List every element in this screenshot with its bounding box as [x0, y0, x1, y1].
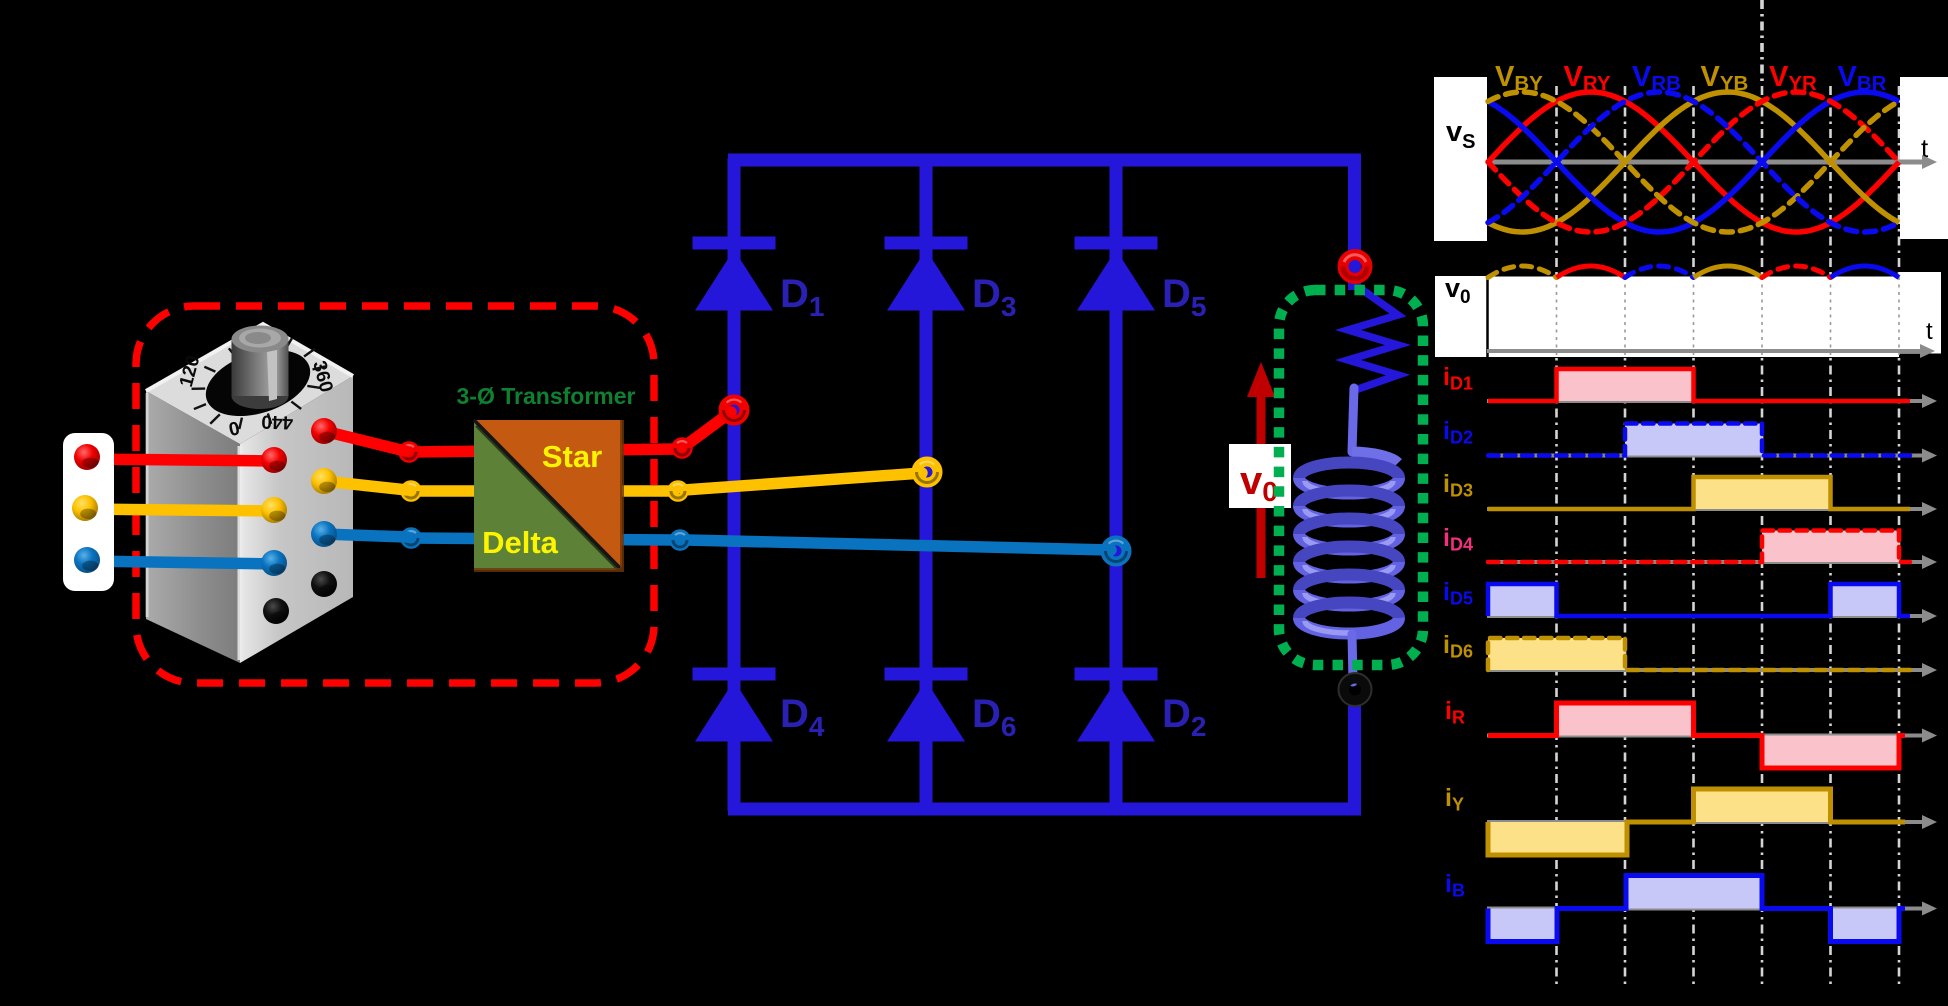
variac terminal R right — [311, 418, 337, 444]
wire input R — [86, 459, 276, 461]
waveform iR axis — [1487, 729, 1937, 743]
variac output wire R — [324, 431, 405, 451]
variac body — [146, 324, 353, 663]
wire bridge leg 2 — [920, 158, 933, 811]
label iD4 — [1443, 524, 1473, 555]
variac knob — [232, 326, 289, 410]
transformer U1 — [474, 420, 630, 578]
node connector R — [402, 445, 416, 459]
node switch pivot Y — [671, 484, 685, 498]
wire phase R feed — [409, 449, 678, 452]
variac output wire Y — [324, 481, 407, 490]
label iD5 — [1443, 578, 1473, 609]
waveform vYR dashed — [1488, 92, 1899, 232]
wire phase Y blade — [684, 473, 922, 490]
label iB — [1445, 870, 1465, 901]
wire phase B feed — [411, 538, 676, 540]
waveform vRY solid — [1488, 92, 1899, 232]
diode D3 — [885, 237, 968, 311]
label iR — [1445, 697, 1465, 728]
waveform iD4 axis — [1487, 555, 1937, 569]
label iY — [1445, 784, 1464, 815]
label D1 — [780, 272, 824, 322]
label D5 — [1162, 272, 1206, 322]
waveform iD6 trace — [1488, 638, 1910, 670]
wire phase R blade — [685, 412, 731, 446]
label vRY — [1564, 61, 1611, 95]
waveform iD3 trace — [1488, 477, 1910, 509]
diode D4 — [693, 668, 776, 742]
variac enclosure dashed box — [136, 306, 654, 683]
diode D6 — [885, 668, 968, 742]
label 3-phase transformer — [457, 383, 636, 409]
variac terminal R left — [261, 447, 287, 473]
waveform iD1 trace — [1488, 369, 1910, 401]
vS time axis — [1487, 155, 1937, 169]
variac terminal black 2 — [263, 598, 289, 624]
v0 time axis — [1487, 344, 1935, 358]
wire bridge leg 1 — [728, 158, 741, 811]
label iD2 — [1443, 417, 1473, 448]
terminal R supply — [74, 444, 100, 470]
waveform iD6 axis — [1487, 663, 1937, 677]
variac terminal B right — [311, 521, 337, 547]
diode D5 — [1075, 237, 1158, 311]
label vYB — [1701, 61, 1749, 95]
waveform iB trace — [1488, 876, 1905, 942]
waveform iD5 trace — [1488, 584, 1910, 616]
waveform vBY dashed — [1488, 92, 1899, 232]
wire input B — [86, 561, 276, 564]
v0 arrow — [1247, 362, 1275, 578]
diode D2 — [1075, 668, 1158, 742]
node negative terminal ring — [1339, 673, 1372, 706]
node switch pivot R — [675, 441, 689, 455]
v0 inner gridlines — [1557, 277, 1900, 356]
label vBR — [1838, 61, 1887, 95]
node positive terminal ring — [1343, 255, 1367, 279]
label vBY — [1495, 61, 1543, 95]
label vRB — [1632, 61, 1681, 95]
waveform iD5 axis — [1487, 609, 1937, 623]
wire input Y — [84, 509, 276, 511]
wire phase B blade — [686, 540, 1111, 550]
waveform vRB dashed — [1488, 92, 1899, 232]
node phase R on leg1 — [724, 400, 745, 421]
timing gridlines — [1557, 0, 1900, 984]
variac terminal Y left — [261, 497, 287, 523]
variac terminal Y right — [311, 468, 337, 494]
wire bridge leg 3 — [1110, 158, 1123, 811]
terminal B supply — [74, 547, 100, 573]
waveform iD2 trace — [1488, 424, 1910, 456]
label D3 — [972, 272, 1016, 322]
diode D1 — [693, 237, 776, 311]
svg-text:440: 440 — [261, 410, 293, 432]
variac output wire B — [324, 534, 407, 537]
waveform iD1 axis — [1487, 394, 1937, 408]
wire phase Y feed — [411, 485, 674, 497]
node connector Y — [404, 484, 418, 498]
wire load top — [1348, 250, 1361, 290]
svg-text:Star: Star — [542, 439, 602, 474]
variac dial numbers — [176, 353, 337, 441]
inductor L load — [1299, 388, 1399, 682]
label vYR — [1769, 61, 1817, 95]
variac terminal B left — [261, 550, 287, 576]
waveform iY axis — [1487, 815, 1937, 829]
svg-text:Delta: Delta — [482, 525, 559, 560]
node switch pivot B — [673, 533, 687, 547]
label Star — [542, 439, 602, 474]
waveform iY trace — [1488, 789, 1905, 855]
label D2 — [1162, 692, 1206, 742]
label D4 — [780, 692, 825, 742]
waveform iR trace — [1488, 703, 1905, 768]
svg-text:t: t — [1926, 318, 1933, 345]
wire top bus — [728, 160, 1355, 252]
label D6 — [972, 692, 1016, 742]
v0 label box — [1229, 444, 1291, 508]
label Delta — [482, 525, 559, 560]
node phase Y on leg2 — [917, 462, 938, 483]
label iD6 — [1443, 631, 1473, 662]
supply terminal block — [63, 433, 114, 591]
label iD1 — [1443, 363, 1473, 394]
variac dial — [179, 322, 337, 445]
waveform iB axis — [1487, 902, 1937, 916]
terminal Y supply — [72, 495, 98, 521]
waveform iD3 axis — [1487, 502, 1937, 516]
v0 envelope arcs — [1488, 266, 1899, 278]
node phase B on leg3 — [1106, 541, 1127, 562]
wire bottom bus — [728, 697, 1355, 809]
vS right white box — [1900, 77, 1948, 239]
svg-text:3-Ø Transformer: 3-Ø Transformer — [457, 383, 636, 409]
node vS label box — [1434, 77, 1487, 241]
label iD3 — [1443, 470, 1473, 501]
waveform vYB solid — [1488, 92, 1899, 232]
v0 plot white area — [1435, 272, 1941, 357]
resistor R load — [1348, 285, 1398, 390]
variac terminal black 1 — [311, 571, 337, 597]
waveform iD4 trace — [1488, 531, 1910, 563]
waveform iD2 axis — [1487, 449, 1937, 463]
waveform vBR solid — [1488, 92, 1899, 232]
node connector B — [404, 531, 418, 545]
load box green dotted — [1279, 290, 1423, 665]
